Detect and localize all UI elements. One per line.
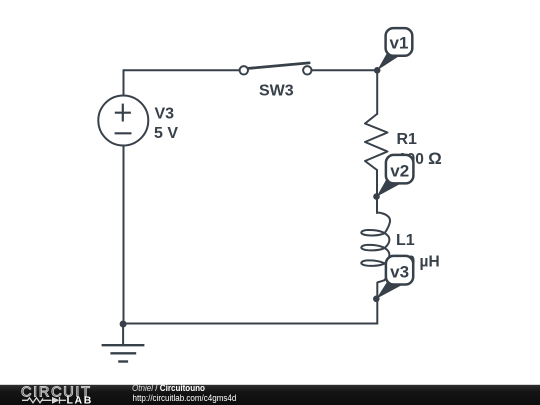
wire L1 exit bend to node v3 and down — [377, 280, 384, 323]
svg-text:v3: v3 — [390, 263, 409, 282]
voltage source plus sign — [115, 104, 131, 122]
wire top-right horizontal (switch to node v1) — [312, 69, 378, 71]
footer bar background — [0, 385, 540, 405]
wire R1 to node v2 to L1 — [376, 170, 378, 213]
svg-text:http://circuitlab.com/c4gms4d: http://circuitlab.com/c4gms4d — [133, 392, 237, 403]
svg-text:v2: v2 — [390, 162, 409, 181]
node v3 junction dot — [373, 296, 380, 303]
svg-text:R1: R1 — [397, 131, 418, 148]
switch SW3 left contact circle — [240, 66, 248, 74]
node v1 junction dot — [374, 67, 381, 74]
logo diode triangle — [52, 397, 60, 404]
switch SW3 right contact circle — [303, 66, 311, 74]
wire V3 top lead — [123, 70, 125, 95]
logo resistor squiggle and diode — [22, 397, 66, 404]
svg-text:5 V: 5 V — [154, 125, 178, 142]
ground bars — [102, 345, 145, 361]
svg-text:SW3: SW3 — [259, 83, 294, 100]
probe v1 box — [386, 28, 413, 56]
probe v1 pointer wedge — [377, 53, 400, 70]
probe v3 pointer wedge — [376, 282, 402, 299]
voltage source minus sign — [115, 132, 132, 134]
svg-text:LAB: LAB — [67, 395, 93, 405]
ground stem — [122, 324, 124, 346]
wire bottom horizontal — [123, 323, 377, 325]
probe v3 box — [386, 256, 413, 285]
wire V3 bottom lead down left side — [123, 146, 125, 324]
node v2 junction dot — [373, 193, 380, 200]
switch SW3 lever — [248, 63, 309, 69]
probe v2 pointer wedge — [377, 180, 401, 197]
wire top-left horizontal (V3 top to switch) — [124, 69, 240, 71]
inductor L1 coil body — [361, 213, 390, 281]
node ground junction dot — [120, 321, 127, 328]
voltage source V3 circle — [98, 96, 148, 146]
wire right vertical top (v1 node to R1) — [376, 70, 378, 114]
svg-text:L1: L1 — [396, 232, 415, 249]
svg-text:v1: v1 — [390, 34, 409, 53]
resistor R1 zigzag body — [365, 114, 388, 170]
probe v2 box — [386, 155, 414, 184]
svg-text:V3: V3 — [155, 106, 175, 123]
